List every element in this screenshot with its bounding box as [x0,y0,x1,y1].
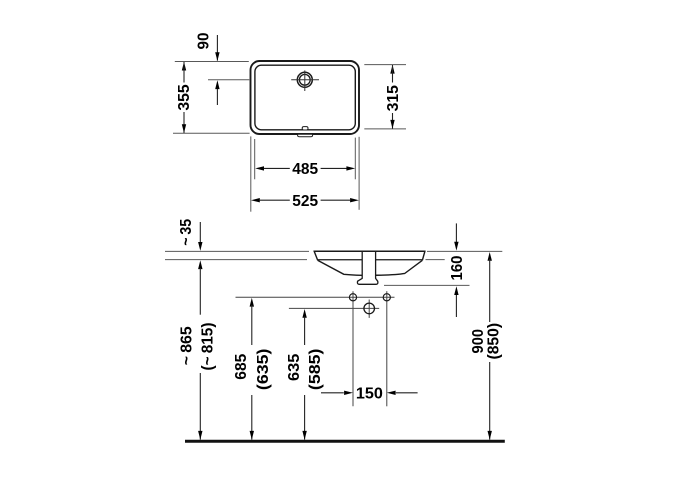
fixing tab below basin (plan) [298,134,313,137]
basin bowl outline (elevation) [318,260,422,275]
dimension line 685 lower [251,395,253,440]
extension line inner rim bottom (315) [364,128,406,130]
dimension line 485 right [321,167,347,169]
svg-text:~ 35: ~ 35 [178,219,195,246]
basin rim (elevation) [314,251,425,259]
dimension 160 upper leader [455,223,457,246]
extension line inner right (485) [354,138,356,180]
countertop top line right [427,250,502,252]
dimension line ~865 upper [198,260,202,269]
dimension line 525 right [321,199,351,201]
countertop bottom line left [165,259,307,261]
tap hole outer circle (plan) [297,72,312,87]
svg-text:(850): (850) [486,323,503,360]
dimension line ~865 lower [199,373,201,440]
extension line inner left (485) [254,139,256,179]
svg-text:(~ 815): (~ 815) [199,323,216,371]
dimension line 635 upper [302,309,306,318]
dimension line 635 lower [304,395,306,440]
tap hole crosshair horizontal (plan) [291,79,319,81]
right fixing hole centerline vertical [386,291,388,406]
extension line outer right (525) [358,137,360,210]
drain column (elevation) [357,252,377,284]
dimension ~35 upper leader [199,222,201,247]
left fixing hole circle [349,294,356,301]
extension line drain outlet level (160) [384,284,470,286]
svg-text:525: 525 [292,193,318,210]
svg-text:150: 150 [356,386,383,403]
overflow slot (plan) [302,127,308,130]
svg-text:(585): (585) [307,349,324,391]
drain hole circle [364,303,375,314]
dimension line 355 lower [183,112,185,133]
dimension line 355 upper [182,62,186,71]
extension line outer left (525) [250,136,252,211]
svg-text:~ 865: ~ 865 [179,326,196,365]
svg-text:485: 485 [292,161,318,178]
basin rim top edge line (elevation) [314,250,425,252]
basin inner rim (plan view) [255,65,355,130]
tap hole crosshair vertical (plan) [304,70,306,91]
svg-text:355: 355 [176,84,193,110]
extension line basin bottom edge (355) [173,132,250,134]
dimension 160 lower leader [454,286,458,295]
countertop top line left [165,250,309,252]
big hole centerline horizontal (635 datum) [289,307,379,309]
extension line inner rim top (315) [364,64,406,66]
dimension 150 right leader [387,391,396,395]
basin outer rim (plan view) [251,61,360,134]
big hole centerline vertical [368,300,370,318]
extension line basin top edge (355/90 datum) [175,61,249,63]
dimension line 525 left [251,198,260,202]
svg-text:315: 315 [385,85,402,111]
countertop bottom line right [426,259,445,261]
dimension 150 left leader [321,392,344,394]
dimension line 900 upper [488,252,492,261]
svg-text:635: 635 [286,354,303,381]
dimension line 315 upper [390,65,394,74]
hole centerline horizontal (685 datum) [236,296,395,298]
svg-text:900: 900 [470,329,487,354]
svg-text:(635): (635) [255,349,272,391]
dimension line 485 left [255,166,264,170]
svg-text:90: 90 [196,32,213,49]
dimension 90 upper leader [216,35,218,61]
dimension line 685 upper [250,298,254,307]
left fixing hole centerline vertical [352,291,354,406]
dimension line 315 lower [392,113,394,129]
tap hole inner circle (plan) [299,74,310,85]
right fixing hole circle [383,294,390,301]
svg-text:685: 685 [233,354,250,380]
extension line tap hole level (90) [208,79,249,81]
floor line [185,440,505,443]
svg-text:160: 160 [449,255,466,280]
dimension line 900 lower [489,362,491,440]
dimension 90 lower leader [215,80,219,89]
